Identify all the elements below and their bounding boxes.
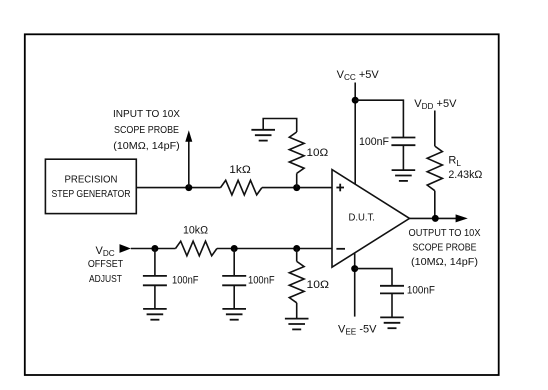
wire: generator output to 1k resistor	[136, 187, 220, 189]
ground (VEE bypass)	[380, 317, 404, 328]
wire: cap1 to ground	[154, 285, 156, 308]
svg-text:INPUT TO 10X: INPUT TO 10X	[113, 108, 180, 120]
op-amp plus pin mark	[336, 184, 344, 192]
wire: VDD down to RL	[434, 111, 436, 147]
wire: VEE branch to bypass cap	[355, 269, 392, 286]
wire: VCC branch to bypass cap	[355, 100, 403, 137]
svg-text:PRECISION: PRECISION	[65, 173, 118, 185]
resistor 1k	[221, 180, 262, 195]
svg-text:10kΩ: 10kΩ	[183, 225, 208, 237]
precision step generator box	[45, 159, 136, 213]
ground (cap1)	[143, 309, 167, 320]
node: VCC junction	[352, 97, 359, 104]
ground (10 ohm bottom)	[285, 319, 309, 330]
arrow: output probe	[456, 214, 468, 222]
svg-text:SCOPE PROBE: SCOPE PROBE	[413, 241, 477, 253]
wire: VDC node down to cap1	[154, 249, 156, 276]
svg-text:2.43kΩ: 2.43kΩ	[448, 169, 482, 181]
op-amp minus pin mark	[336, 248, 345, 250]
resistor 10k	[176, 241, 217, 256]
svg-text:VCC +5V: VCC +5V	[337, 69, 380, 82]
svg-text:OUTPUT TO 10X: OUTPUT TO 10X	[409, 227, 481, 239]
resistor RL 2.43k	[427, 146, 442, 191]
svg-text:ADJUST: ADJUST	[89, 273, 122, 285]
svg-text:(10MΩ, 14pF): (10MΩ, 14pF)	[113, 140, 180, 152]
svg-text:SCOPE PROBE: SCOPE PROBE	[114, 124, 179, 136]
node: VDC filter junction	[151, 245, 158, 252]
svg-text:10Ω: 10Ω	[307, 147, 329, 159]
label: output to 10x scope probe	[409, 227, 481, 268]
node: plus input junction	[293, 184, 300, 191]
svg-text:100nF: 100nF	[407, 285, 435, 297]
resistor 10 ohm (bottom)	[289, 261, 304, 302]
wire: VCC cap to ground	[402, 145, 404, 170]
node: input probe junction	[185, 184, 192, 191]
wire: mid node down to cap2	[233, 249, 235, 276]
svg-text:100nF: 100nF	[248, 275, 275, 287]
svg-text:100nF: 100nF	[359, 136, 389, 148]
node: VEE junction	[351, 265, 358, 272]
wire: RL to output node	[434, 191, 436, 219]
label: input to 10x scope probe	[113, 108, 180, 152]
node: mid filter junction	[231, 245, 238, 252]
wire: plus node up to 10 ohm resistor	[296, 173, 298, 187]
wire: 1k resistor to op-amp plus input	[262, 187, 332, 189]
wire: cap2 to ground	[233, 285, 235, 308]
wire: VCC supply down to op-amp	[354, 83, 356, 185]
wire: VDC arrow to 10k resistor	[131, 248, 176, 250]
svg-text:1kΩ: 1kΩ	[229, 164, 251, 176]
wire: 10 ohm bottom to ground	[296, 303, 298, 318]
svg-text:OFFSET: OFFSET	[88, 258, 124, 270]
arrow: input probe	[185, 130, 192, 142]
wire: op-amp VEE down	[354, 253, 356, 317]
ground (VCC bypass)	[392, 170, 416, 181]
svg-text:D.U.T.: D.U.T.	[348, 211, 375, 223]
wire: 10k resistor to op-amp minus input	[217, 248, 332, 250]
svg-text:100nF: 100nF	[172, 275, 199, 287]
wire: op-amp output	[410, 217, 457, 219]
arrow: VDC input	[120, 244, 131, 253]
op-amp D.U.T.	[332, 170, 410, 268]
svg-text:VDD +5V: VDD +5V	[414, 98, 457, 111]
capacitor 100nF (cap1)	[143, 276, 167, 285]
svg-text:10Ω: 10Ω	[307, 279, 330, 291]
capacitor 100nF (cap2)	[222, 276, 246, 285]
resistor 10 ohm (top)	[289, 132, 304, 173]
label: VDC offset adjust	[88, 245, 124, 285]
ground (cap2)	[222, 309, 246, 320]
svg-text:(10MΩ, 14pF): (10MΩ, 14pF)	[411, 256, 478, 268]
wire: 10 ohm top to ground jog	[263, 119, 297, 133]
capacitor 100nF (VCC bypass)	[391, 138, 415, 146]
capacitor 100nF (VEE bypass)	[380, 286, 404, 294]
svg-text:VEE -5V: VEE -5V	[338, 323, 377, 336]
node: output junction	[432, 215, 439, 222]
svg-text:STEP GENERATOR: STEP GENERATOR	[52, 188, 131, 200]
ground (top left)	[251, 130, 275, 141]
wire: VEE cap to ground	[391, 293, 393, 317]
wire: minus node down to 10 ohm resistor	[296, 249, 298, 262]
node: minus input junction	[293, 245, 300, 252]
wire: input probe stub	[188, 141, 190, 188]
